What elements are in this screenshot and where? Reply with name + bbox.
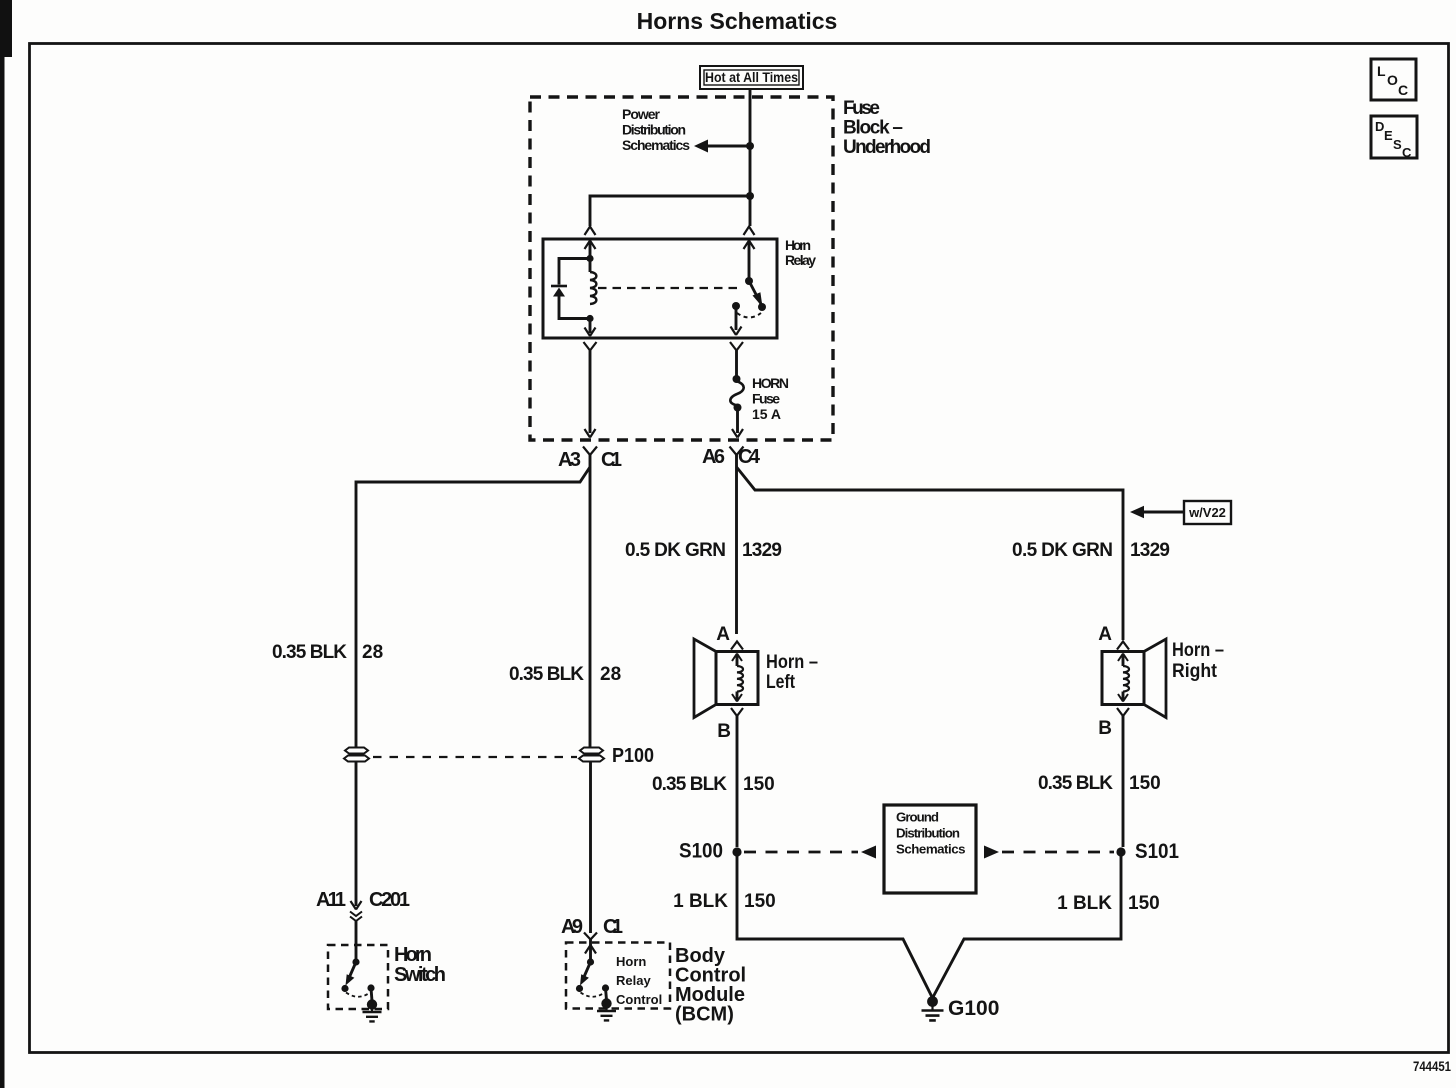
svg-text:w/V22: w/V22 (1188, 505, 1226, 520)
svg-text:A6: A6 (702, 446, 725, 468)
svg-text:E: E (1384, 128, 1393, 143)
Hot at All Times flag (700, 66, 803, 89)
svg-text:Schematics: Schematics (622, 137, 690, 153)
wire: fuse output to C4 (736, 408, 739, 434)
svg-text:150: 150 (1128, 893, 1160, 914)
svg-text:A9: A9 (561, 916, 583, 938)
svg-text:0.5 DK GRN: 0.5 DK GRN (625, 540, 726, 561)
svg-text:C1: C1 (601, 449, 622, 471)
splice S100 (732, 847, 741, 856)
body control module dashed box (566, 943, 670, 1009)
svg-text:Horns Schematics: Horns Schematics (637, 8, 838, 34)
connector A6 C4 (702, 446, 761, 468)
svg-text:28: 28 (600, 664, 621, 685)
ground at horn switch (371, 988, 372, 1001)
svg-text:Block –: Block – (843, 118, 903, 139)
svg-text:0.35 BLK: 0.35 BLK (652, 774, 727, 795)
wire: A6/C4 to right horn branch (737, 467, 1124, 640)
fuse F: HORN Fuse 15 A (733, 375, 741, 383)
label 0.35 BLK 28 (left run) (272, 642, 383, 663)
svg-text:Right: Right (1172, 661, 1218, 682)
svg-text:150: 150 (744, 891, 776, 912)
wire: relay control actuating dashed link (598, 287, 742, 289)
label 0.5 DK GRN 1329 (right) (1012, 540, 1170, 561)
connector pass-through P100 (left grommet) (344, 748, 369, 762)
wire: A3 branch straight down to P100 (589, 467, 592, 747)
horn left cone (694, 639, 716, 718)
wire: left run below P100 to C201 (355, 762, 358, 907)
ground G100 (927, 996, 938, 1007)
svg-text:S101: S101 (1135, 840, 1179, 863)
horn left coil element (736, 655, 739, 666)
svg-text:Underhood: Underhood (843, 137, 931, 158)
svg-text:Fuse: Fuse (752, 391, 780, 407)
svg-text:150: 150 (743, 774, 775, 795)
svg-text:15 A: 15 A (752, 406, 781, 422)
wire: into horn switch (355, 921, 358, 962)
svg-text:Horn: Horn (785, 237, 811, 253)
splice S101 (1116, 847, 1125, 856)
DESC box (1371, 116, 1417, 158)
wire: A3 feed down to connector (589, 351, 592, 434)
BCM switch travel dashed arc (581, 993, 605, 997)
BCM switch contact (602, 984, 609, 991)
wire: to HORN fuse (735, 351, 738, 377)
scan artifact: left edge black strip (0, 0, 5, 1088)
svg-text:(BCM): (BCM) (675, 1004, 734, 1026)
relay switch travel dashed arc (737, 313, 761, 318)
connector A9 C1 (561, 916, 623, 938)
svg-text:O: O (1387, 72, 1398, 88)
wire: S101 down to ground funnel (933, 852, 1122, 998)
label 0.35 BLK 150 (right) (1038, 773, 1161, 794)
pin: BCM output arrow up (585, 945, 596, 954)
svg-text:Hot at All Times: Hot at All Times (705, 70, 798, 85)
svg-text:Distribution: Distribution (622, 122, 686, 138)
svg-text:1 BLK: 1 BLK (673, 891, 728, 912)
horn switch armature (352, 958, 359, 965)
horn right speaker symbol (1098, 624, 1224, 739)
wire: A3 branch fork to horn switch run (356, 467, 590, 747)
svg-text:C201: C201 (369, 889, 410, 911)
pin: relay switch pin top (female chevron) (744, 227, 755, 236)
svg-text:Ground: Ground (896, 810, 939, 825)
ground distribution schematics box (884, 805, 976, 893)
node: coil bottom junction (586, 315, 593, 322)
connector pass-through P100 (right grommet) (579, 748, 604, 762)
svg-text:C: C (1402, 145, 1412, 160)
horn switch travel dashed arc (346, 993, 370, 997)
wire: horn right ground lead (1122, 716, 1125, 847)
svg-text:Horn –: Horn – (766, 652, 818, 673)
wire: horn left ground lead (736, 716, 739, 847)
svg-text:Horn: Horn (394, 944, 432, 966)
relay switch contact (732, 302, 740, 310)
horn left speaker symbol (694, 624, 818, 742)
svg-text:HORN: HORN (752, 375, 789, 391)
svg-text:150: 150 (1129, 773, 1161, 794)
wire: battery feed vertical from Hot at All Times (749, 89, 752, 226)
svg-text:A: A (716, 624, 730, 645)
svg-text:Distribution: Distribution (896, 826, 960, 841)
svg-text:Power: Power (622, 106, 661, 122)
svg-text:1 BLK: 1 BLK (1057, 893, 1112, 914)
svg-text:Horn: Horn (616, 954, 646, 969)
svg-text:0.35 BLK: 0.35 BLK (1038, 773, 1113, 794)
label 1 BLK 150 (right) (1057, 893, 1160, 914)
wire: dashed P100 link (373, 756, 577, 758)
label 1 BLK 150 (left) (673, 891, 776, 912)
svg-text:0.5 DK GRN: 0.5 DK GRN (1012, 540, 1113, 561)
svg-text:A11: A11 (316, 889, 346, 911)
svg-text:P100: P100 (612, 745, 654, 767)
BCM driver switch armature (587, 958, 594, 965)
connector A3 C1 (558, 449, 622, 471)
svg-text:B: B (717, 721, 731, 742)
w/V22 option flag (1137, 511, 1184, 514)
label 0.35 BLK 150 (left) (652, 774, 775, 795)
horn right body (1102, 652, 1144, 705)
LOC box (1371, 59, 1416, 100)
svg-text:1329: 1329 (1130, 540, 1170, 561)
svg-text:Horn –: Horn – (1172, 640, 1224, 661)
ground at BCM (606, 988, 607, 1000)
relay coil L1 (589, 259, 592, 273)
node: junction to relay coil branch (746, 192, 754, 200)
wire: to clamp diode (559, 259, 590, 285)
relay box: Horn Relay (543, 239, 777, 338)
svg-text:Relay: Relay (616, 973, 651, 988)
wire: BCM run below P100 to A9 (589, 762, 592, 934)
svg-text:0.35 BLK: 0.35 BLK (509, 664, 584, 685)
svg-text:G100: G100 (948, 997, 999, 1020)
horn left body (716, 652, 758, 705)
svg-text:744451: 744451 (1413, 1059, 1451, 1074)
horn switch SW dashed box (328, 945, 388, 1009)
svg-text:Control: Control (616, 992, 662, 1007)
connector A11 C201 (316, 889, 410, 911)
svg-text:Left: Left (766, 672, 796, 693)
svg-text:C1: C1 (603, 916, 623, 938)
svg-text:Fuse: Fuse (843, 98, 880, 119)
wire: dashed to ground distribution (left) (744, 851, 858, 854)
svg-text:0.35 BLK: 0.35 BLK (272, 642, 347, 663)
svg-text:C: C (1398, 82, 1408, 98)
svg-text:B: B (1098, 718, 1112, 739)
label 0.35 BLK 28 (BCM run) (509, 664, 621, 685)
pin: coil bottom arrow out of box (589, 319, 592, 334)
pin: relay coil pin top (female chevron) (585, 227, 596, 236)
svg-text:L: L (1377, 63, 1386, 79)
pin: relay coil pin arrow into box (589, 242, 592, 258)
svg-text:A: A (1098, 624, 1112, 645)
svg-text:D: D (1375, 119, 1384, 134)
pin: relay coil output chevron below box (584, 342, 597, 351)
horn switch contact (367, 984, 374, 991)
relay switch armature (745, 277, 753, 285)
wire: branch to relay coil pin (590, 196, 750, 226)
svg-text:28: 28 (362, 642, 383, 663)
horn right coil element (1122, 655, 1125, 666)
wire: left horn feed (735, 467, 738, 634)
wire: dashed to ground distribution (right) (984, 846, 999, 859)
wire: S100 down to ground funnel (737, 852, 933, 998)
svg-text:S: S (1393, 137, 1402, 152)
label Fuse Block - Underhood (843, 98, 931, 158)
label 0.5 DK GRN 1329 (left) (625, 540, 782, 561)
svg-text:A3: A3 (558, 449, 581, 471)
svg-text:S100: S100 (679, 840, 723, 863)
svg-text:Schematics: Schematics (896, 842, 966, 857)
pin: relay switch arrow into box (748, 242, 751, 281)
node: junction to power distribution (746, 142, 754, 150)
pin: relay switch output chevron below box (730, 342, 743, 351)
svg-text:Relay: Relay (785, 252, 816, 268)
node: coil top junction (586, 255, 593, 262)
horn right cone (1144, 639, 1166, 718)
diode D (clamp) (551, 285, 567, 288)
fuse block dashed box (530, 97, 833, 440)
wire: arrow to Power Distribution Schematics (707, 145, 750, 148)
svg-text:Switch: Switch (394, 964, 446, 986)
svg-text:1329: 1329 (742, 540, 782, 561)
